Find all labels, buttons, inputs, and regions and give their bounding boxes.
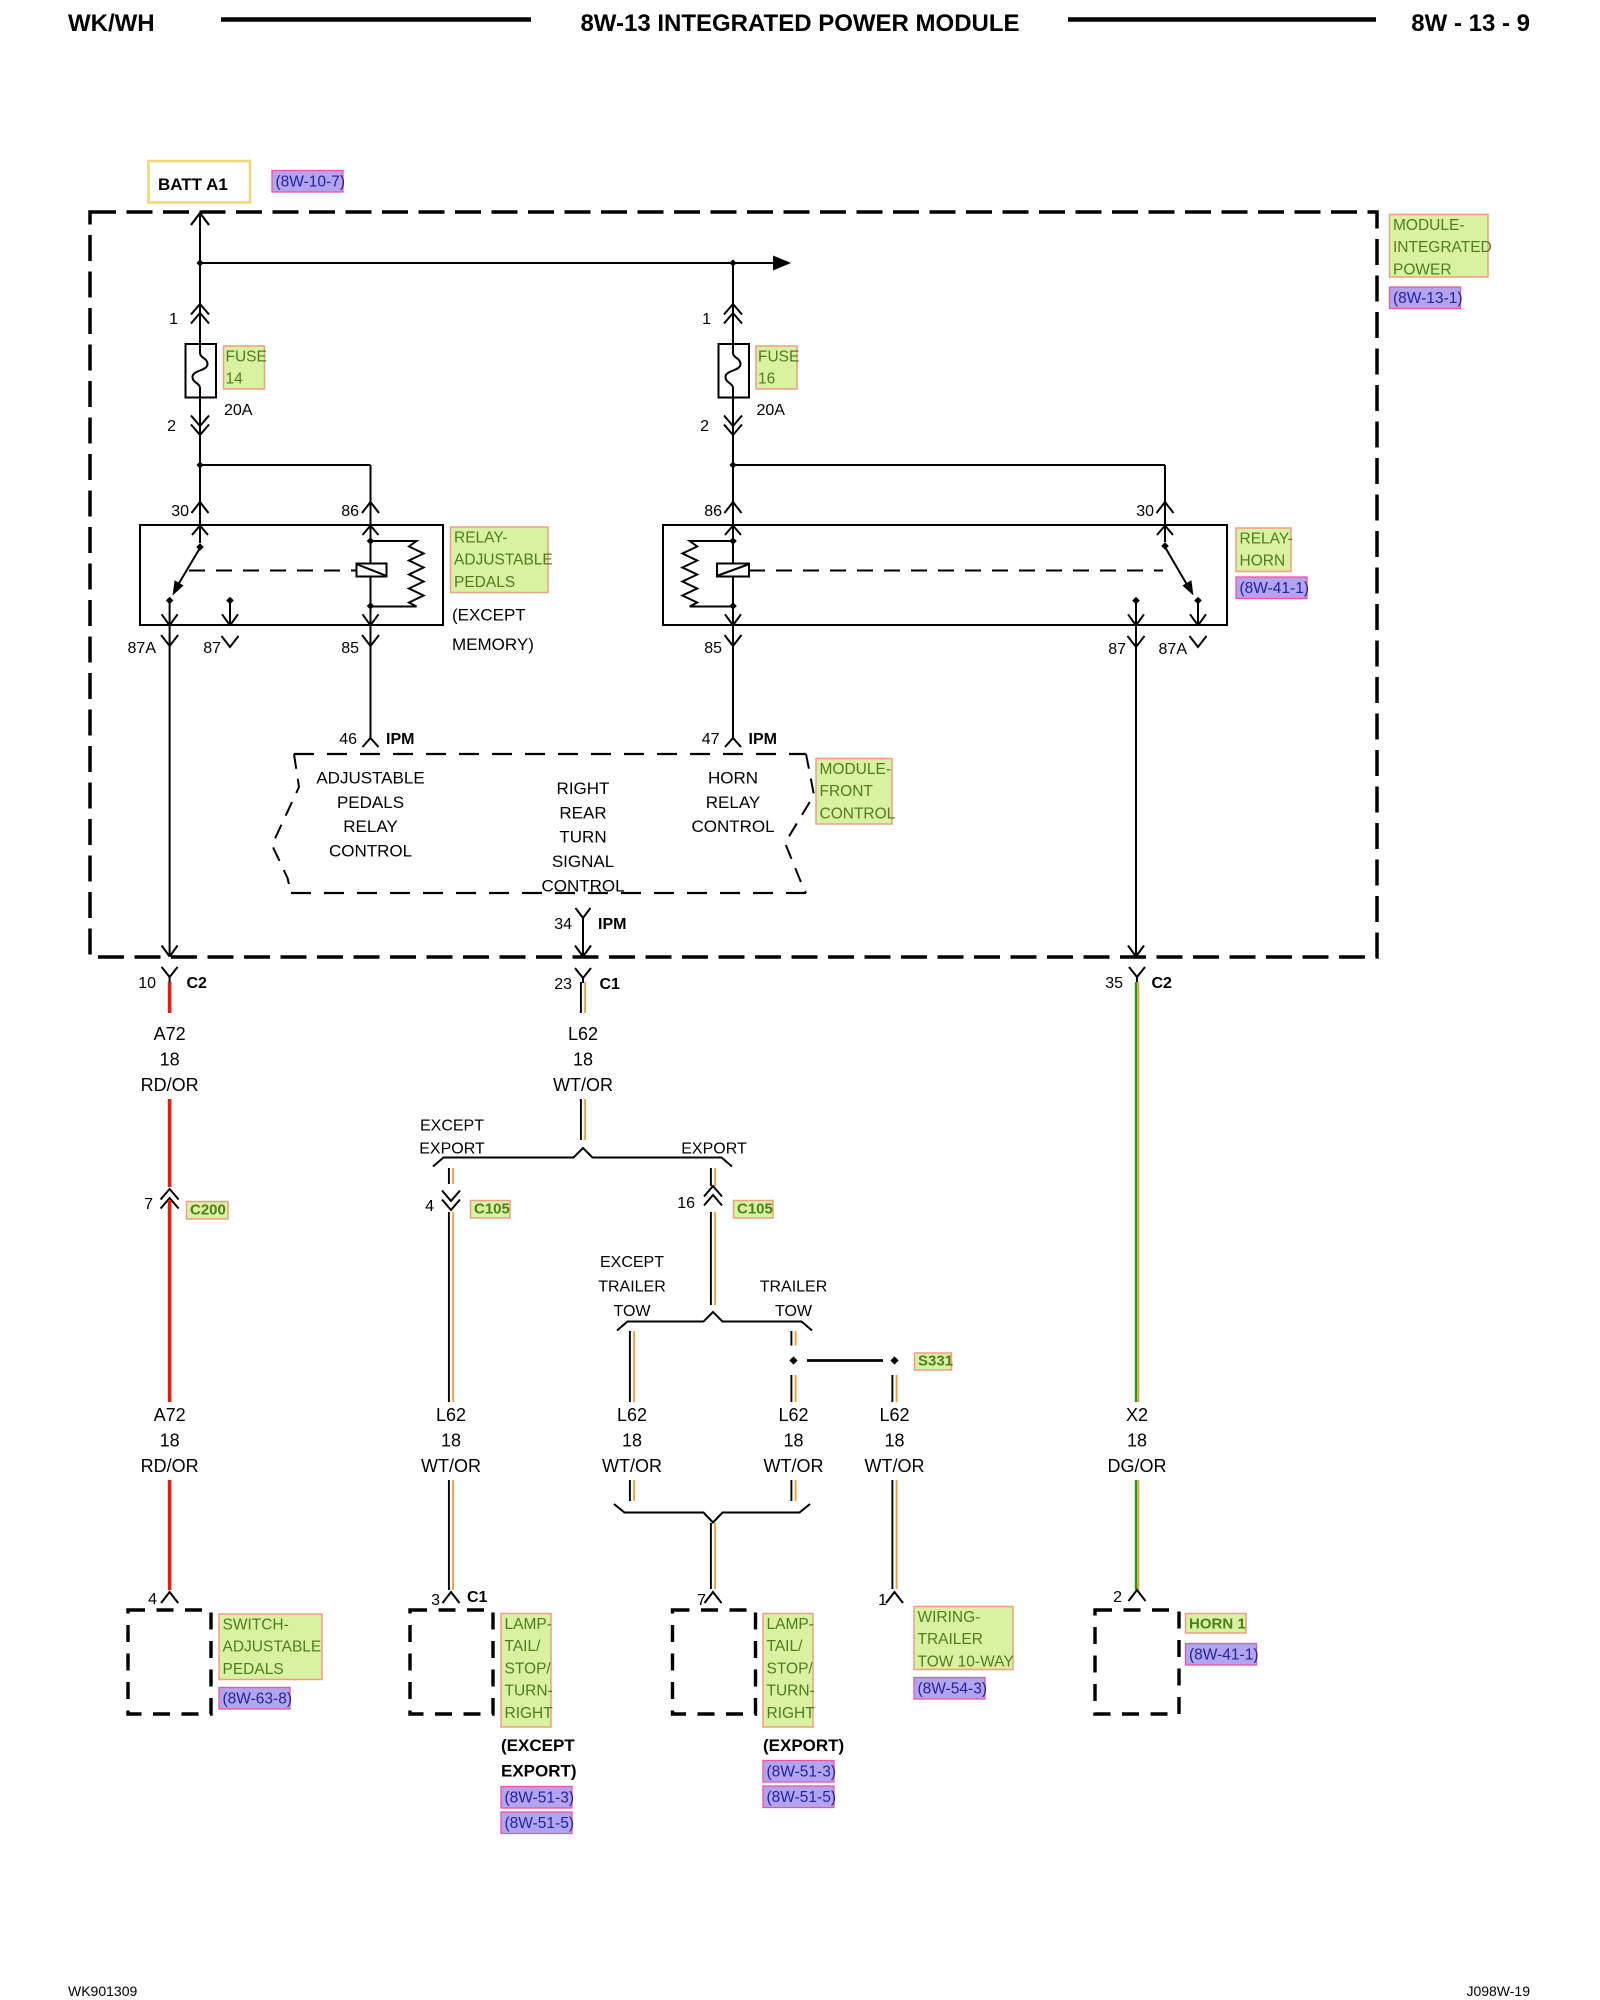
svg-text:CONTROL: CONTROL [329,841,412,860]
svg-text:WIRING-: WIRING- [918,1609,981,1626]
svg-text:WT/OR: WT/OR [764,1456,824,1476]
svg-text:87: 87 [203,640,221,657]
battery feed BATT A1 box [149,161,251,203]
wire horn 85 down to IPM 47 [732,625,734,738]
svg-text:ADJUSTABLE: ADJUSTABLE [454,552,553,569]
connector chevrons pin 1 fuse 16 [724,304,742,324]
svg-text:C105: C105 [474,1201,510,1218]
svg-text:1: 1 [169,311,178,328]
svg-text:IPM: IPM [386,731,414,748]
chevron pin 86 [362,502,379,513]
merge brace export lamp [614,1504,810,1523]
svg-text:TAIL/: TAIL/ [767,1638,804,1655]
chevron horn 87A [1190,636,1207,647]
wire A72 RD/OR upper [168,982,172,1187]
svg-text:7: 7 [144,1196,153,1213]
relay pedals switch blade [176,548,201,589]
svg-text:EXCEPT: EXCEPT [420,1118,484,1135]
wire 85 down to IPM 46 [370,625,372,738]
horn coil top junction [729,537,737,545]
svg-text:X2: X2 [1126,1405,1148,1425]
svg-text:RELAY: RELAY [706,793,761,812]
horn relay coil resistance [682,541,733,607]
connector C200 chevrons [161,1189,179,1209]
label C200 [187,1202,229,1220]
svg-text:34: 34 [554,916,572,933]
svg-text:RIGHT: RIGHT [767,1705,816,1722]
horn coil center line [732,541,734,606]
fuse 16 element [726,350,741,392]
connector C1 pin 23 [575,968,591,983]
relay adjustable pedals box [140,525,443,625]
svg-text:35: 35 [1105,975,1123,992]
horn relay pin 86 arrow inside [725,526,741,536]
fuse 14 element [193,350,208,392]
svg-text:HORN 1: HORN 1 [1189,1616,1246,1633]
arrow out at horn 87A [1190,614,1206,625]
page ref (8W-10-7) [272,171,345,193]
wire fuse 14 to relay 30 [199,392,201,525]
svg-text:J098W-19: J098W-19 [1466,1983,1530,1999]
svg-text:EXPORT): EXPORT) [501,1762,577,1781]
svg-text:A72: A72 [154,1405,186,1425]
svg-text:87A: 87A [128,640,157,657]
svg-text:2: 2 [700,418,709,435]
svg-text:SIGNAL: SIGNAL [552,852,614,871]
wire to 85 [370,606,372,624]
svg-text:C2: C2 [187,975,208,992]
horn relay coil symbol [717,564,749,577]
svg-text:3: 3 [431,1592,440,1609]
svg-text:L62: L62 [436,1405,466,1425]
connector chevrons pin 2 fuse 16 [724,416,742,436]
svg-text:18: 18 [160,1049,180,1069]
horn relay pin 30 arrow inside [1157,526,1173,536]
wire L62 trailer tow branch lower [791,1375,795,1501]
coil center line [370,541,372,606]
svg-text:16: 16 [758,371,775,388]
svg-text:RD/OR: RD/OR [141,1075,199,1095]
coil bottom junction [367,602,375,610]
connector chevrons pin 2 fuse 14 [191,416,209,436]
split brace export/except export [433,1148,732,1167]
label WIRING-TRAILER TOW 10-WAY [914,1607,1014,1671]
wire label L62 col2 [602,1402,662,1480]
wire label A72 lower [140,1402,200,1480]
svg-text:L62: L62 [617,1405,647,1425]
svg-text:EXPORT: EXPORT [681,1141,747,1158]
svg-text:A72: A72 [154,1024,186,1044]
svg-text:TRAILER: TRAILER [918,1631,983,1648]
page ref (8W-41-1) horn relay [1236,577,1309,599]
page ref (8W-51-5) left [501,1812,574,1834]
svg-text:TOW: TOW [775,1303,813,1320]
label MODULE-FRONT CONTROL [816,759,896,825]
svg-text:MODULE-: MODULE- [820,761,891,778]
wire L62 to trailer tow connector [892,1375,896,1589]
arrow out at 85 [363,614,379,625]
svg-text:20A: 20A [224,402,253,419]
header rule left [221,17,531,22]
chevron horn 86 [725,502,742,513]
svg-text:CONTROL: CONTROL [691,817,774,836]
svg-text:WK/WH: WK/WH [68,10,155,37]
svg-text:IPM: IPM [749,731,777,748]
page ref (8W-41-1) horn [1186,1644,1259,1666]
wire X2 DG/OR from C2-35 [1136,982,1138,1590]
chevron pin 4 [161,1592,178,1603]
wire L62 stub to C105-16 [711,1168,715,1186]
svg-text:MODULE-: MODULE- [1393,217,1464,234]
svg-text:18: 18 [783,1430,803,1450]
svg-text:PEDALS: PEDALS [454,574,515,591]
svg-text:BATT A1: BATT A1 [158,175,228,194]
svg-text:18: 18 [622,1430,642,1450]
svg-text:RELAY: RELAY [343,817,398,836]
connector C2 pin 10 [162,967,178,982]
svg-text:S331: S331 [918,1353,953,1370]
svg-text:CONTROL: CONTROL [820,805,896,822]
splice S331 right node [890,1356,898,1364]
connector IPM pin 34 [576,908,591,918]
arrowhead into module top at BATT feed [191,213,209,225]
svg-text:18: 18 [441,1430,461,1450]
label MODULE-INTEGRATED POWER [1390,215,1492,279]
arrow at module boundary right [1128,946,1144,957]
wire L62 stub to C105-4 [449,1168,453,1184]
wire fuse 16 to relay 86 [732,392,734,525]
horn coil bottom junction [729,602,737,610]
svg-text:TRAILER: TRAILER [598,1279,666,1296]
horn relay switch blade [1165,547,1190,589]
svg-text:7: 7 [697,1592,706,1609]
svg-text:POWER: POWER [1393,261,1452,278]
relay pedals actuation dashed link [189,570,357,572]
switch-adjustable pedals box [128,1610,211,1714]
horn relay 87 contact [1132,597,1140,605]
fuse F14 body [186,344,217,398]
wire A72 RD/OR lower [168,1200,172,1590]
svg-text:RIGHT: RIGHT [557,779,610,798]
relay pedals pin 86 arrow inside [363,526,379,536]
wire L62 WT/OR to lamp (except export) [449,1212,453,1590]
label RELAY-ADJUSTABLE PEDALS [451,527,553,593]
splice S331 tie [807,1359,883,1362]
svg-text:WT/OR: WT/OR [421,1456,481,1476]
wire BATT A1 down to fuse 14 [199,213,201,350]
svg-text:L62: L62 [568,1024,598,1044]
svg-text:46: 46 [339,731,357,748]
coil top junction [367,537,375,545]
label LAMP-TAIL/STOP/TURN-RIGHT (export) [763,1614,815,1728]
wire label X2 [1107,1402,1167,1480]
svg-text:(8W-63-8): (8W-63-8) [223,1691,292,1708]
chevron pin 2 [1129,1590,1146,1601]
svg-text:STOP/: STOP/ [505,1660,552,1677]
module-integrated power boundary (dashed box) [90,212,1377,957]
junction to relay coil branch [196,461,203,468]
svg-text:ADJUSTABLE: ADJUSTABLE [316,769,424,788]
svg-text:30: 30 [171,503,189,520]
junction at fuse 14 branch [196,259,203,266]
svg-text:RELAY-: RELAY- [1240,531,1293,548]
wire down to relay 86 [370,465,372,525]
chevron pin 7 [705,1592,722,1603]
label LAMP-TAIL/STOP/TURN-RIGHT (except export) [501,1614,553,1728]
lamp-tail/stop/turn-right (export) box [673,1610,756,1714]
wire L62 to export lamp [711,1523,715,1589]
wire to horn relay 30 [733,464,1165,466]
label FUSE 16 [756,346,799,389]
page ref (8W-13-1) [1390,287,1463,309]
svg-text:RELAY-: RELAY- [454,530,507,547]
wire horn 87 down to C2-35 [1135,625,1137,956]
wire to 87A [169,601,171,625]
label S331 [915,1353,954,1371]
svg-text:85: 85 [341,640,359,657]
svg-text:IPM: IPM [598,916,626,933]
svg-text:16: 16 [677,1195,695,1212]
banner torn left edge [272,754,299,893]
svg-text:L62: L62 [778,1405,808,1425]
svg-text:CONTROL: CONTROL [541,876,624,895]
svg-text:EXPORT: EXPORT [419,1141,485,1158]
chevron pin 1 [886,1592,903,1603]
svg-text:8W-13 INTEGRATED POWER MODULE: 8W-13 INTEGRATED POWER MODULE [580,10,1019,37]
svg-text:(8W-51-5): (8W-51-5) [767,1789,836,1806]
header rule right [1068,17,1376,22]
relay pedals switch pivot [196,543,204,551]
svg-text:C105: C105 [737,1201,773,1218]
chevron 87A [161,635,178,646]
bus wire across top [200,262,773,264]
horn relay box [663,525,1227,625]
svg-text:REAR: REAR [559,803,606,822]
svg-text:TURN-: TURN- [767,1683,815,1700]
connector C105 chevrons (except export) [442,1191,460,1211]
svg-text:STOP/: STOP/ [767,1660,814,1677]
svg-text:87A: 87A [1159,641,1188,658]
horn relay actuation dashed link [749,570,1163,572]
junction to horn relay switch branch [729,461,736,468]
arrow out at 87A [162,614,178,625]
svg-text:(8W-41-1): (8W-41-1) [1240,580,1309,597]
svg-text:23: 23 [554,976,572,993]
svg-text:(8W-51-3): (8W-51-3) [767,1764,836,1781]
banner torn right edge [785,754,814,893]
svg-text:8W - 13 - 9: 8W - 13 - 9 [1411,10,1530,37]
chevron 85 [362,635,379,646]
svg-text:TOW 10-WAY: TOW 10-WAY [918,1653,1014,1670]
svg-text:TOW: TOW [613,1303,651,1320]
page ref (8W-54-3) [914,1678,987,1700]
svg-text:RIGHT: RIGHT [505,1705,554,1722]
horn relay switch pivot [1161,542,1169,550]
arrow at module boundary left [162,946,178,957]
svg-text:PEDALS: PEDALS [223,1661,284,1678]
wire 87A down to C2-10 [169,625,171,956]
label C105 left [471,1201,511,1219]
horn relay 87A contact [1194,597,1202,605]
wire to horn 87 [1135,601,1137,625]
svg-text:PEDALS: PEDALS [337,793,404,812]
svg-text:HORN: HORN [1240,553,1286,570]
wire label L62 col3 [764,1402,824,1480]
svg-text:1: 1 [878,1592,887,1609]
wire L62 WT/OR export branch [711,1212,715,1305]
svg-text:TRAILER: TRAILER [760,1279,828,1296]
svg-text:WT/OR: WT/OR [865,1456,925,1476]
label RELAY-HORN [1236,528,1293,572]
svg-text:18: 18 [884,1430,904,1450]
arrow out at 87 [222,614,238,625]
relay pedals coil symbol [357,564,387,577]
svg-text:(8W-51-3): (8W-51-3) [505,1790,574,1807]
chevron horn 85 [725,635,742,646]
svg-text:FRONT: FRONT [820,783,874,800]
chevron 87 [222,636,239,647]
svg-text:FUSE: FUSE [226,349,267,366]
svg-text:FUSE: FUSE [758,349,799,366]
label C105 right [734,1201,774,1219]
wire to horn 85 [732,606,734,624]
svg-text:18: 18 [160,1430,180,1450]
svg-text:C1: C1 [600,976,621,993]
arrowhead continuation right [773,256,791,271]
label SWITCH-ADJUSTABLE PEDALS [219,1614,322,1680]
svg-text:C1: C1 [467,1589,488,1606]
svg-text:4: 4 [148,1591,157,1608]
svg-text:86: 86 [341,503,359,520]
connector chevrons pin 1 fuse 14 [191,304,209,324]
svg-text:(8W-10-7): (8W-10-7) [276,174,345,191]
wire L62 WT/OR from C1-23 [581,982,585,1140]
svg-text:(EXCEPT: (EXCEPT [452,606,526,625]
svg-text:INTEGRATED: INTEGRATED [1393,239,1492,256]
fuse F16 body [719,344,750,398]
module-front control dashed banner [294,753,806,755]
svg-text:18: 18 [573,1049,593,1069]
svg-text:SWITCH-: SWITCH- [223,1617,289,1634]
lamp-tail/stop/turn-right (except export) box [410,1610,493,1714]
svg-text:87: 87 [1108,641,1126,658]
label HORN 1 [1186,1614,1247,1634]
svg-text:4: 4 [425,1198,434,1215]
svg-text:LAMP-: LAMP- [767,1616,814,1633]
svg-text:86: 86 [704,503,722,520]
svg-text:(EXCEPT: (EXCEPT [501,1736,575,1755]
svg-text:RD/OR: RD/OR [141,1456,199,1476]
connector IPM pin 46 [363,729,379,747]
wire label L62 col1 [421,1402,481,1480]
wire to relay 86 [200,464,371,466]
relay pedals pin 30 arrow inside [192,526,208,536]
horn 1 box [1095,1610,1179,1714]
chevron pin 30 [192,502,209,513]
page ref (8W-51-5) right [763,1786,836,1808]
svg-text:C200: C200 [190,1202,226,1219]
page ref (8W-51-3) right [763,1761,836,1783]
relay pedals coil resistance [371,541,424,607]
chevron horn 87 [1128,636,1145,647]
svg-text:85: 85 [704,640,722,657]
wire L62 trailer tow branch upper [791,1331,795,1346]
wire to horn 87A [1197,601,1199,625]
label FUSE 14 [224,346,267,389]
svg-text:1: 1 [702,311,711,328]
relay pedals 87 contact [226,597,234,605]
wire to 87 [229,601,231,625]
svg-text:TURN-: TURN- [505,1683,553,1700]
svg-text:EXCEPT: EXCEPT [600,1254,664,1271]
svg-text:(8W-51-5): (8W-51-5) [505,1815,574,1832]
svg-text:WT/OR: WT/OR [553,1075,613,1095]
wire L62 except trailer tow branch [630,1331,634,1501]
svg-text:2: 2 [167,418,176,435]
connector C2 pin 35 [1129,967,1145,982]
chevron horn 30 [1157,502,1174,513]
svg-text:30: 30 [1136,503,1154,520]
connector C105 chevrons (export) [704,1186,722,1206]
wire junction down to fuse 16 [732,263,734,350]
junction at fuse 16 branch [729,259,736,266]
svg-text:(8W-13-1): (8W-13-1) [1393,290,1462,307]
wire label L62 col4 [865,1402,925,1480]
relay pedals 87A contact [166,597,174,605]
svg-text:TAIL/: TAIL/ [505,1638,542,1655]
svg-text:WK901309: WK901309 [68,1983,137,1999]
svg-text:18: 18 [1127,1430,1147,1450]
arrow out at horn 87 [1128,614,1144,625]
svg-text:MEMORY): MEMORY) [452,635,534,654]
arrow out at horn 85 [725,614,741,625]
svg-text:10: 10 [138,975,156,992]
svg-text:(8W-41-1): (8W-41-1) [1189,1647,1258,1664]
svg-text:TURN: TURN [559,828,606,847]
splice S331 left node [789,1356,797,1364]
svg-text:ADJUSTABLE: ADJUSTABLE [223,1639,322,1656]
svg-text:14: 14 [226,371,244,388]
chevron pin 3 [443,1592,460,1603]
svg-text:DG/OR: DG/OR [1107,1456,1166,1476]
svg-text:WT/OR: WT/OR [602,1456,662,1476]
svg-text:(8W-54-3): (8W-54-3) [918,1681,987,1698]
wire down to horn relay 30 [1164,465,1166,525]
svg-text:20A: 20A [757,402,786,419]
svg-text:2: 2 [1113,1589,1122,1606]
svg-text:(EXPORT): (EXPORT) [763,1736,844,1755]
split brace trailer tow [617,1312,812,1331]
connector IPM pin 47 [725,729,741,747]
svg-text:C2: C2 [1152,975,1173,992]
arrow at module boundary center [575,946,591,957]
page ref (8W-63-8) [219,1688,292,1710]
svg-text:L62: L62 [879,1405,909,1425]
svg-text:47: 47 [702,731,720,748]
svg-text:LAMP-: LAMP- [505,1616,552,1633]
svg-text:HORN: HORN [708,769,758,788]
page ref (8W-51-3) left [501,1787,574,1809]
